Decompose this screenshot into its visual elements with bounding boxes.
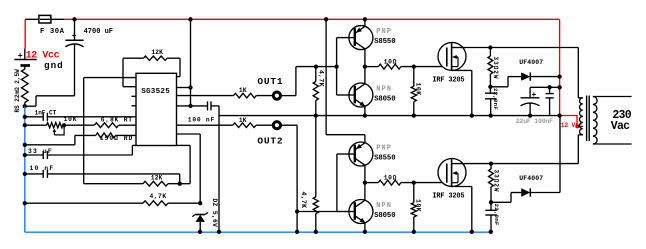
svg-text:UF4007: UF4007 <box>519 59 543 66</box>
svg-text:+: + <box>532 91 537 100</box>
svg-text:22,0nF: 22,0nF <box>493 204 500 226</box>
svg-text:S8550: S8550 <box>374 154 395 162</box>
svg-text:22uF 100nF: 22uF 100nF <box>516 118 553 125</box>
svg-text:33Ω2W: 33Ω2W <box>492 57 499 80</box>
svg-text:100 nF: 100 nF <box>188 117 215 124</box>
svg-text:IRF 3205: IRF 3205 <box>432 193 464 201</box>
svg-text:4,7K: 4,7K <box>318 70 325 87</box>
svg-text:OUT2: OUT2 <box>257 135 283 146</box>
svg-text:10 nF: 10 nF <box>30 165 55 172</box>
svg-text:PNP: PNP <box>376 28 392 36</box>
svg-text:150Ω RD: 150Ω RD <box>100 135 133 142</box>
svg-text:Vac: Vac <box>611 120 630 133</box>
svg-text:S8050: S8050 <box>374 212 395 220</box>
svg-text:1K: 1K <box>239 87 247 94</box>
svg-text:4,7K: 4,7K <box>150 193 167 200</box>
svg-text:4700 uF: 4700 uF <box>84 28 113 36</box>
svg-text:33Ω2W: 33Ω2W <box>492 170 499 193</box>
svg-text:1K: 1K <box>239 117 247 124</box>
svg-text:RS 22mΩ 2,5W: RS 22mΩ 2,5W <box>14 69 21 113</box>
svg-text:DZ 5,6V: DZ 5,6V <box>211 199 218 228</box>
svg-text:6,8K RT: 6,8K RT <box>101 116 133 123</box>
svg-text:4,7K: 4,7K <box>300 192 307 209</box>
svg-text:UF4007: UF4007 <box>519 175 543 182</box>
svg-text:S8050: S8050 <box>374 95 395 103</box>
svg-text:10K: 10K <box>415 83 422 96</box>
svg-text:NPN: NPN <box>376 202 392 210</box>
svg-text:OUT1: OUT1 <box>257 76 283 87</box>
svg-text:22,0nF: 22,0nF <box>492 88 499 110</box>
svg-text:10Ω: 10Ω <box>384 59 397 66</box>
svg-text:10Ω: 10Ω <box>384 175 397 182</box>
svg-text:33 uF: 33 uF <box>28 148 53 155</box>
svg-text:S8550: S8550 <box>374 38 395 46</box>
svg-text:12K: 12K <box>151 49 163 56</box>
svg-text:F 30A: F 30A <box>40 28 65 36</box>
svg-text:SG3525: SG3525 <box>141 88 170 96</box>
svg-text:10K: 10K <box>64 116 78 123</box>
svg-text:gnd: gnd <box>44 60 64 71</box>
svg-text:NPN: NPN <box>376 86 392 94</box>
svg-text:IRF 3205: IRF 3205 <box>432 77 464 85</box>
svg-text:10K: 10K <box>415 199 422 212</box>
svg-text:1nF CT: 1nF CT <box>35 109 57 116</box>
svg-text:+: + <box>18 51 23 61</box>
svg-text:12K: 12K <box>151 175 163 182</box>
svg-text:PNP: PNP <box>376 145 392 153</box>
